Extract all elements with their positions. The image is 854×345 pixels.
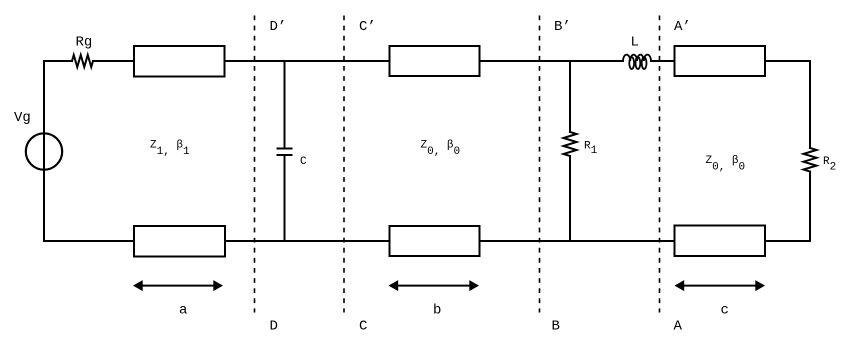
svg-text:b: b: [433, 303, 441, 319]
svg-text:D: D: [270, 319, 278, 335]
svg-text:A’: A’: [674, 19, 691, 35]
dashed reference plane D: [254, 16, 256, 313]
source Vg: [26, 133, 62, 169]
wire bottom rail: section2 to section4: [480, 240, 675, 242]
svg-text:Z0, β0: Z0, β0: [421, 140, 461, 159]
svg-text:C: C: [359, 319, 367, 335]
wire R1 branch upper: [569, 61, 571, 132]
svg-text:L: L: [631, 35, 639, 51]
wire R1 branch lower: [569, 156, 571, 241]
transmission line Z0 (b) top box: [390, 46, 480, 76]
svg-text:B: B: [552, 319, 560, 335]
wire top rail right end: [765, 60, 810, 62]
dimension arrow a: [141, 285, 215, 287]
capacitor C plates: [278, 148, 292, 150]
dashed reference plane C: [343, 16, 345, 313]
svg-text:D’: D’: [270, 19, 287, 35]
svg-text:R1: R1: [584, 141, 598, 158]
svg-text:R2: R2: [823, 156, 836, 174]
wire left vertical from top-left corner down to bottom rail: [43, 61, 45, 241]
wire right vertical upper: [809, 61, 811, 148]
transmission line Z0 (c) top box: [675, 46, 766, 76]
dashed reference plane A: [659, 16, 661, 313]
svg-text:C’: C’: [359, 19, 376, 35]
wire top rail: corner to Rg: [44, 60, 72, 62]
resistor R2: [804, 148, 817, 172]
resistor R1: [564, 132, 577, 156]
svg-text:a: a: [179, 303, 187, 319]
dimension arrow b: [396, 285, 471, 287]
svg-text:Z1, β1: Z1, β1: [150, 140, 190, 159]
wire right vertical lower: [809, 172, 811, 242]
wire bottom rail left: [44, 240, 134, 242]
dimension arrow c: [682, 285, 757, 287]
wire bottom rail right end: [765, 240, 810, 242]
transmission line Z0 (b) bottom box: [390, 226, 480, 256]
svg-text:Rg: Rg: [76, 35, 93, 51]
svg-text:A: A: [674, 319, 683, 335]
svg-text:B’: B’: [554, 19, 571, 35]
wire bottom rail: section1 to section2: [225, 240, 390, 242]
transmission line Z0 (c) bottom box: [675, 226, 766, 257]
transmission line Z1 top box: [134, 46, 225, 77]
wire top rail: section2 to inductor through node B': [480, 60, 624, 62]
capacitor C stem lower: [284, 155, 286, 241]
wire inductor to section3 through node A': [651, 60, 675, 62]
capacitor C stem upper: [284, 61, 286, 149]
inductor L: [623, 55, 651, 61]
svg-text:C: C: [300, 156, 307, 168]
svg-text:Z0, β0: Z0, β0: [706, 155, 746, 174]
dashed reference plane B: [539, 16, 541, 313]
transmission line Z1 bottom box: [134, 226, 225, 257]
resistor Rg: [72, 55, 93, 67]
wire Rg to line section 1: [93, 60, 134, 62]
wire top rail: section1 to section2 through node D' and C': [225, 60, 390, 62]
svg-text:c: c: [721, 303, 729, 319]
svg-text:Vg: Vg: [14, 110, 31, 126]
